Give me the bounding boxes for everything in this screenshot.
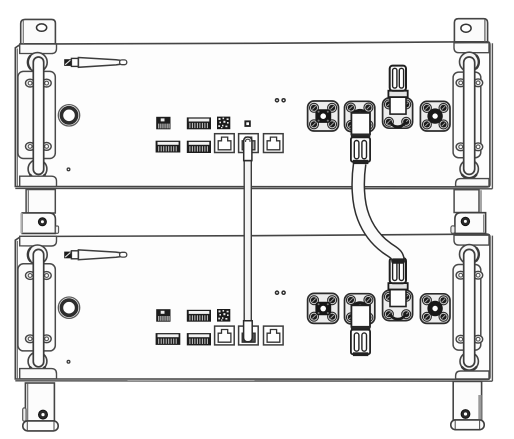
network cable between units (245, 158, 251, 323)
right inter-unit block (455, 213, 486, 234)
top right mounting ear (454, 19, 487, 42)
bottom unit chassis (15, 234, 492, 381)
power cable bottom ferrule (392, 258, 404, 263)
network jack interior bottom unit (242, 330, 255, 342)
bottom right foot bracket (453, 381, 481, 420)
power cable between units (358, 164, 398, 263)
bottom left foot bolt (39, 410, 48, 419)
top left ear hole (37, 24, 47, 31)
left bracket bolt (38, 218, 46, 226)
bottom left foot bracket (25, 383, 54, 421)
left inter-unit block (22, 213, 55, 234)
bottom left foot tab (23, 408, 26, 421)
network plug top unit (244, 137, 252, 161)
bottom right foot base (451, 420, 484, 430)
bottom right foot bolt (461, 410, 470, 419)
top left mounting ear (21, 19, 56, 43)
network plug bottom unit (244, 321, 253, 342)
right bracket bolt (461, 217, 469, 225)
right inter-unit bracket upper (454, 190, 479, 213)
right bracket tab (451, 226, 455, 234)
left inter-unit bracket upper (26, 190, 55, 214)
top right ear hole (461, 24, 471, 32)
bottom left foot base (23, 421, 58, 431)
power cable top ferrule (353, 160, 368, 164)
left bracket tab (55, 226, 58, 234)
top unit chassis (15, 42, 492, 189)
